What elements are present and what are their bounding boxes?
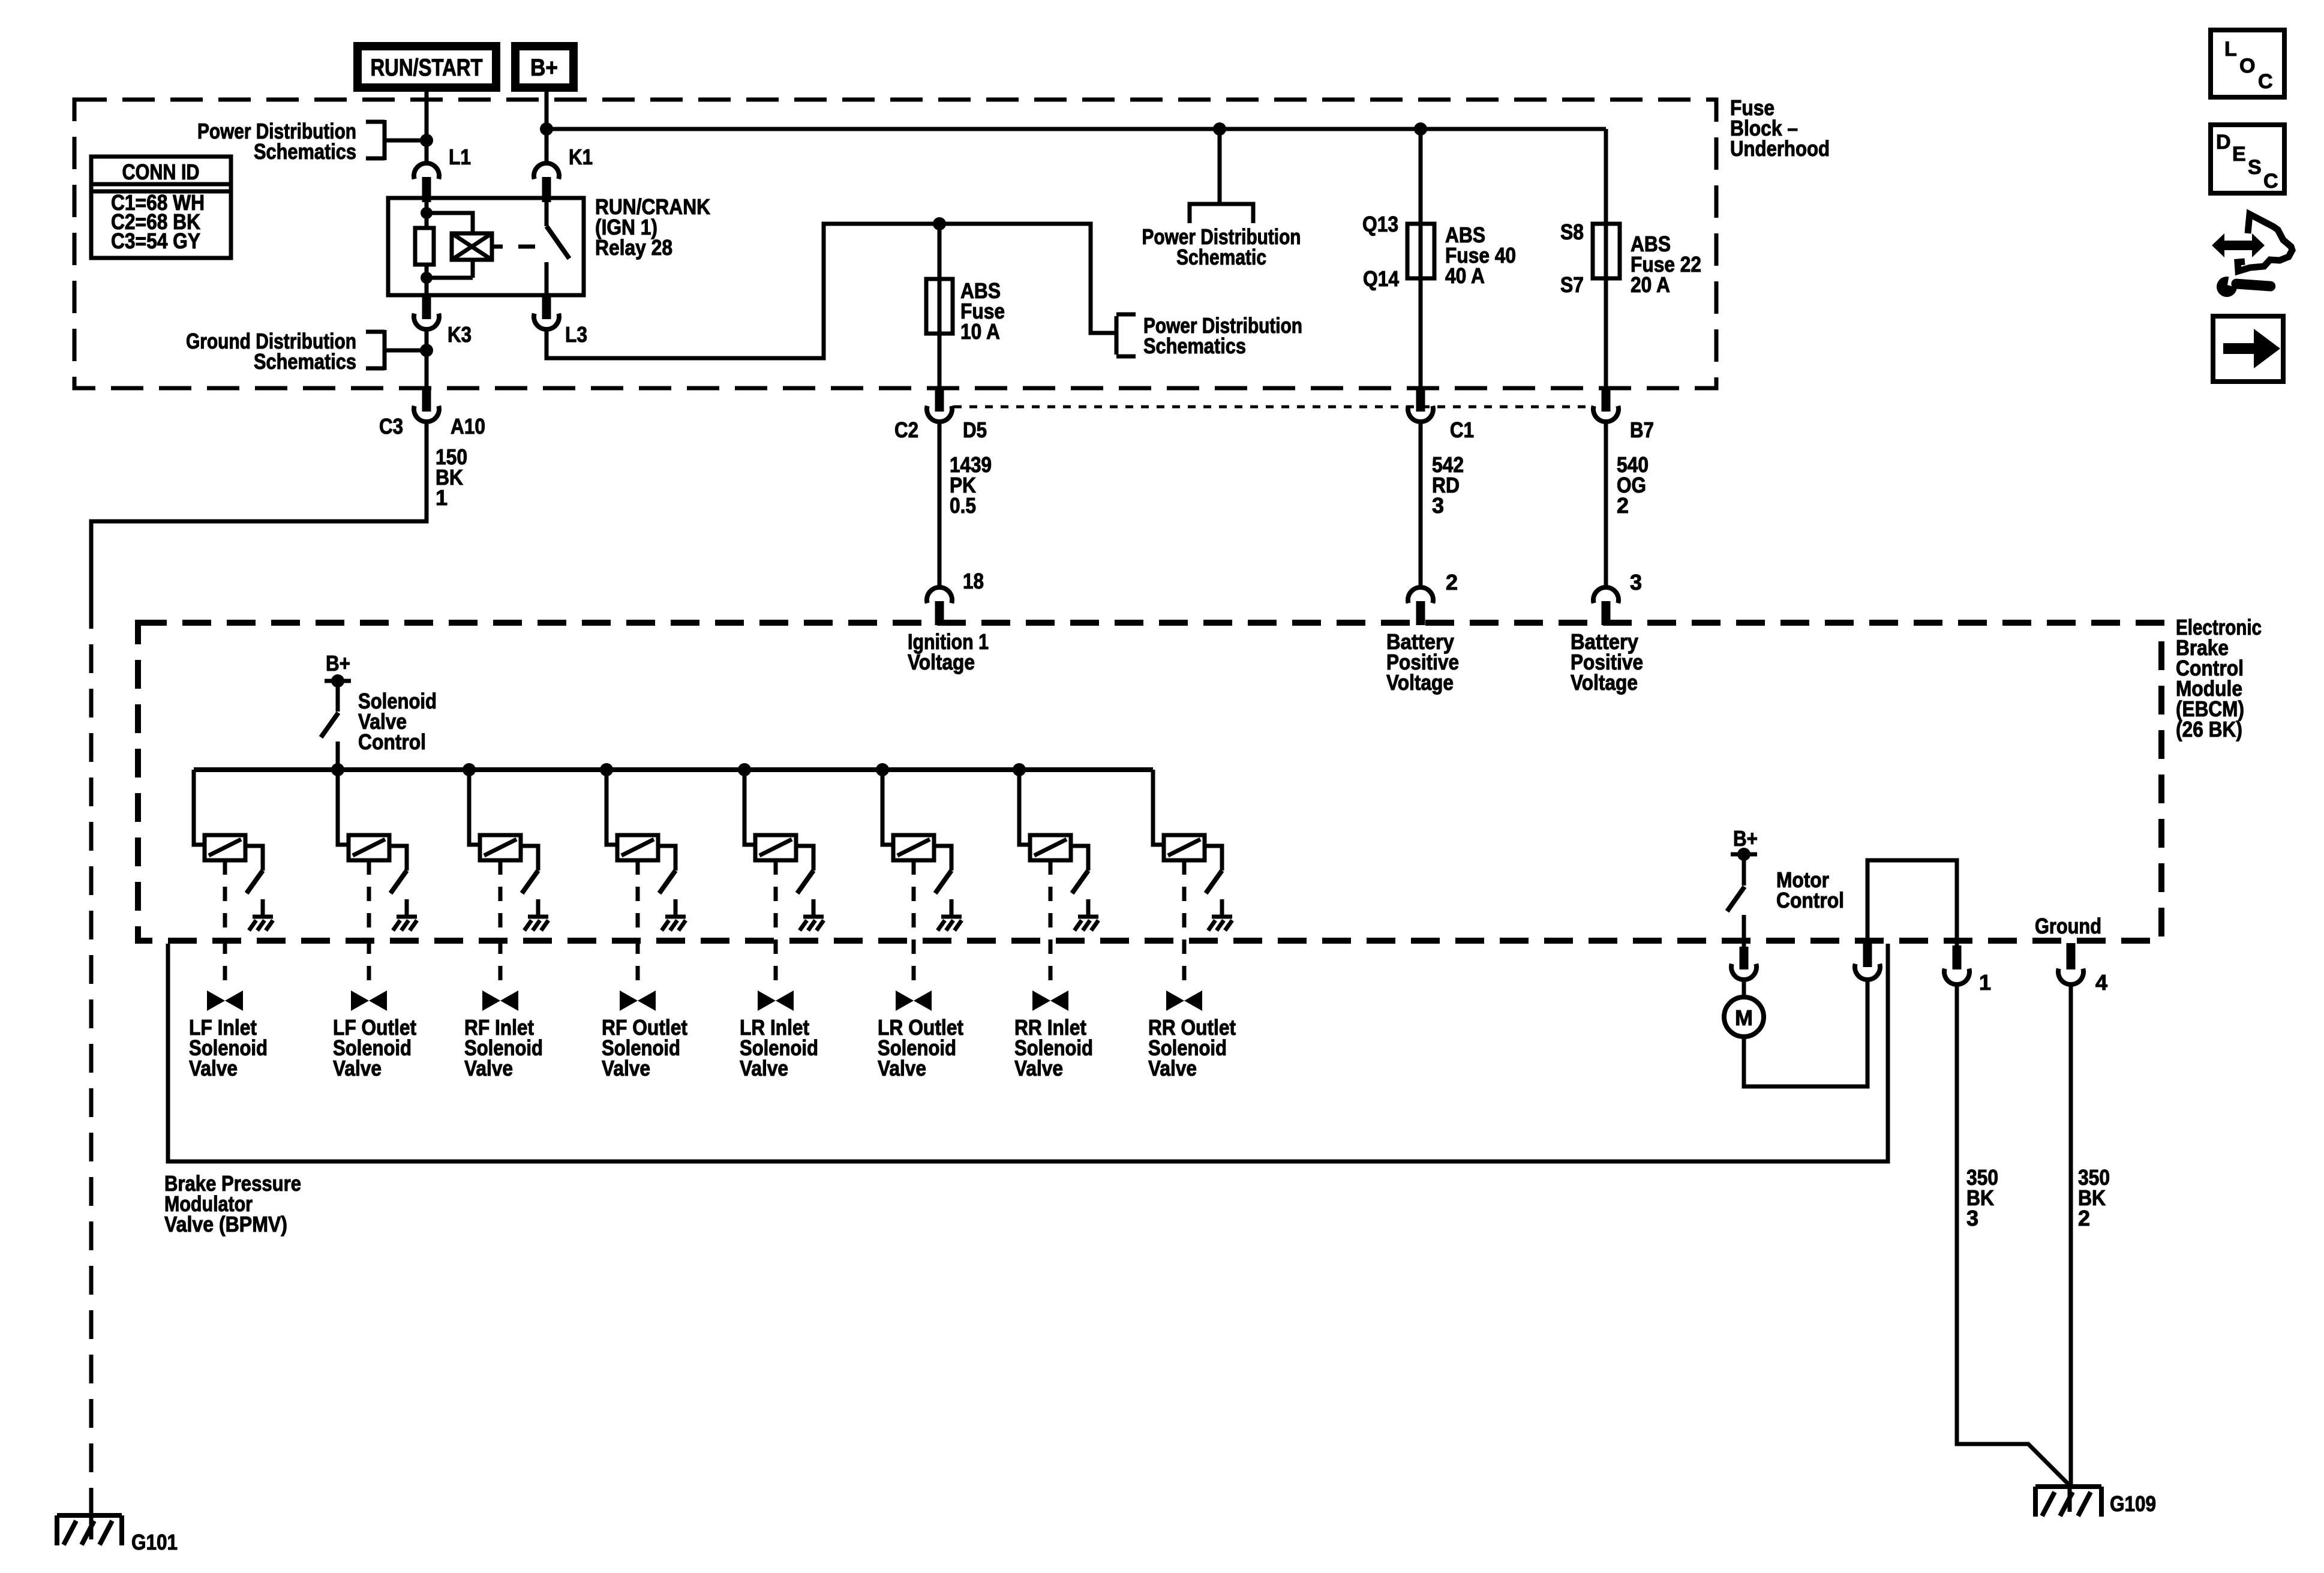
- wire RUN/START down to L1: [425, 92, 429, 163]
- connector L3: [542, 295, 551, 319]
- fuse ABS Fuse 10 A: [938, 224, 942, 387]
- svg-text:B+: B+: [530, 55, 558, 81]
- svg-text:3: 3: [1432, 493, 1444, 518]
- svg-text:L1: L1: [449, 145, 471, 169]
- svg-text:1: 1: [1979, 970, 1991, 995]
- LF Outlet solenoid driver: [338, 770, 417, 1011]
- svg-text:(26 BK): (26 BK): [2176, 717, 2242, 742]
- pin 4 connector: [2067, 943, 2076, 969]
- svg-text:Valve: Valve: [333, 1056, 382, 1080]
- svg-text:Valve: Valve: [1148, 1056, 1197, 1080]
- svg-text:3: 3: [1966, 1206, 1978, 1230]
- svg-text:S7: S7: [1560, 272, 1584, 297]
- node bus taps: [331, 763, 344, 776]
- node junction to ground distribution bracket: [420, 344, 433, 357]
- svg-text:L: L: [2224, 38, 2237, 61]
- icon service wrench with arrows: [2212, 214, 2292, 297]
- fuse ABS Fuse 40 (Q13/Q14): [1419, 129, 1423, 387]
- svg-text:C: C: [2258, 70, 2273, 93]
- wire 540 OG 2: [1604, 422, 1608, 588]
- wire K3 down to C3: [425, 329, 429, 387]
- svg-text:Schematic: Schematic: [1176, 245, 1266, 269]
- ground G101: [57, 1515, 122, 1545]
- BPMV outline: [168, 944, 1888, 1161]
- icon forward arrow box: [2213, 316, 2283, 382]
- svg-text:Relay 28: Relay 28: [595, 235, 672, 260]
- svg-text:S: S: [2248, 156, 2262, 179]
- svg-text:Valve: Valve: [1014, 1056, 1063, 1080]
- svg-text:Valve (BPMV): Valve (BPMV): [164, 1212, 287, 1236]
- svg-text:Q14: Q14: [1363, 266, 1399, 291]
- svg-text:G109: G109: [2110, 1491, 2156, 1516]
- wire L3 to ABS fuse 10A feed: [547, 224, 1115, 358]
- RUN/START feed box: [358, 46, 496, 88]
- wire resistor bottom to K3: [425, 265, 429, 295]
- svg-text:2: 2: [2078, 1206, 2090, 1230]
- EBCM dashed enclosure: [138, 623, 2161, 941]
- connector C3 / A10: [422, 389, 431, 412]
- wire bus from K1 junction to fuses: [547, 127, 1606, 131]
- svg-text:D5: D5: [963, 418, 987, 442]
- svg-text:K3: K3: [448, 322, 472, 347]
- svg-text:0.5: 0.5: [950, 493, 976, 518]
- svg-text:CONN ID: CONN ID: [122, 160, 200, 184]
- svg-text:40 A: 40 A: [1445, 263, 1485, 288]
- svg-text:Valve: Valve: [878, 1056, 926, 1080]
- svg-text:C2: C2: [894, 418, 918, 442]
- svg-text:Control: Control: [1776, 888, 1844, 912]
- wire bus drop to power distribution schematic: [1218, 129, 1222, 202]
- svg-text:Valve: Valve: [602, 1056, 650, 1080]
- svg-text:2: 2: [1446, 570, 1458, 595]
- wire 542 RD 3: [1419, 422, 1423, 588]
- connector C1: [1416, 389, 1425, 412]
- svg-text:B+: B+: [326, 651, 350, 676]
- motor return pin connector: [1863, 943, 1872, 967]
- svg-text:3: 3: [1630, 570, 1642, 595]
- svg-text:C: C: [2263, 170, 2278, 193]
- RF Inlet solenoid driver: [469, 770, 548, 1011]
- pin 3 connector at EBCM: [1593, 587, 1619, 603]
- svg-text:20 A: 20 A: [1631, 272, 1670, 297]
- svg-text:Schematics: Schematics: [1143, 334, 1246, 358]
- off-page bracket Power Distribution Schematics: [366, 120, 427, 160]
- svg-text:Valve: Valve: [464, 1056, 513, 1080]
- ground G109: [2035, 1487, 2101, 1517]
- connector B7: [1602, 389, 1611, 412]
- Fuse Block - Underhood dashed enclosure: [74, 100, 1716, 388]
- svg-text:C3=54 GY: C3=54 GY: [111, 229, 200, 253]
- svg-text:B+: B+: [1733, 826, 1758, 851]
- svg-text:Control: Control: [358, 730, 426, 754]
- svg-text:M: M: [1735, 1005, 1753, 1030]
- svg-text:Ground: Ground: [2035, 914, 2101, 938]
- svg-text:Voltage: Voltage: [1386, 670, 1454, 695]
- svg-text:RUN/START: RUN/START: [371, 55, 483, 81]
- svg-text:Voltage: Voltage: [1571, 670, 1638, 695]
- LR Inlet solenoid driver: [744, 770, 824, 1011]
- svg-text:C1: C1: [1450, 418, 1474, 442]
- svg-text:G101: G101: [131, 1530, 178, 1554]
- relay switch: [545, 202, 549, 226]
- CONN ID table: [91, 157, 231, 258]
- relay RUN/CRANK (IGN 1) Relay 28 box: [388, 198, 584, 295]
- wire 150 BK 1 dashed run to G101: [89, 600, 94, 1507]
- fuse ABS Fuse 22 (S8/S7): [1604, 129, 1608, 387]
- relay coil box with X: [452, 233, 492, 260]
- svg-text:Schematics: Schematics: [254, 139, 356, 164]
- svg-text:O: O: [2239, 55, 2255, 77]
- off-page bracket Power Distribution Schematics (right): [1116, 314, 1136, 356]
- motor control pin connector: [1740, 947, 1749, 969]
- wire B+ down to K1: [545, 92, 549, 163]
- node junction fuse 10A: [933, 217, 946, 230]
- wire relay coil top node: [425, 202, 429, 228]
- svg-text:B7: B7: [1630, 418, 1654, 442]
- svg-text:L3: L3: [565, 322, 587, 347]
- wire coil parallel loop bottom: [427, 258, 473, 278]
- connector K3: [422, 295, 431, 319]
- svg-text:K1: K1: [569, 145, 593, 169]
- svg-text:Underhood: Underhood: [1730, 136, 1830, 161]
- RR Inlet solenoid driver: [1019, 770, 1098, 1011]
- pin 18 connector at EBCM: [927, 587, 952, 603]
- wire motor return: [1744, 980, 1867, 1086]
- relay actuation dashed link: [492, 245, 535, 249]
- svg-text:S8: S8: [1560, 220, 1584, 244]
- svg-text:18: 18: [963, 569, 984, 593]
- svg-text:D: D: [2216, 131, 2231, 154]
- svg-text:Q13: Q13: [1362, 212, 1398, 236]
- RF Outlet solenoid driver: [606, 770, 686, 1011]
- svg-text:E: E: [2232, 143, 2246, 166]
- icon LOC box: [2211, 30, 2284, 97]
- svg-text:Voltage: Voltage: [908, 650, 975, 674]
- wire 150 BK 1: [91, 422, 427, 600]
- svg-text:Valve: Valve: [189, 1056, 238, 1080]
- off-page symbol Power Distribution Schematic: [1190, 204, 1253, 223]
- connector C2 / D5: [935, 389, 944, 412]
- svg-text:2: 2: [1617, 493, 1629, 518]
- pin 1 connector: [1953, 945, 1962, 969]
- node junction to power distribution bracket: [420, 134, 433, 147]
- LF Inlet solenoid driver: [194, 770, 273, 1011]
- svg-text:4: 4: [2095, 970, 2107, 995]
- off-page bracket Ground Distribution Schematics: [366, 330, 427, 370]
- wire 1439 PK 0.5: [938, 422, 942, 588]
- svg-text:1: 1: [436, 485, 448, 510]
- wire coil parallel loop top: [427, 213, 473, 235]
- node junction B+ bus: [540, 122, 553, 136]
- connector K1: [534, 163, 559, 179]
- svg-text:Valve: Valve: [740, 1056, 788, 1080]
- B+ feed box: [515, 46, 574, 88]
- svg-text:10 A: 10 A: [960, 319, 1000, 344]
- wire 350 BK 2: [2069, 984, 2073, 1484]
- motor M: [1742, 980, 1746, 996]
- resistor relay coil suppression: [415, 228, 434, 265]
- icon DESC box: [2211, 125, 2284, 193]
- svg-text:A10: A10: [451, 414, 485, 439]
- svg-text:C3: C3: [379, 414, 403, 439]
- switch motor control: [1742, 857, 1746, 885]
- wire solenoid supply bus: [194, 767, 1153, 772]
- wire EBCM internal motor return to pin 1: [1867, 860, 1957, 945]
- svg-text:Schematics: Schematics: [254, 349, 356, 374]
- dotted connector row line C2-C1-B7: [954, 406, 1592, 409]
- wire 350 BK 3: [1957, 984, 2068, 1484]
- RR Outlet solenoid driver: [1153, 770, 1232, 1011]
- switch solenoid valve control: [336, 683, 340, 712]
- connector L1: [414, 163, 439, 179]
- pin 2 connector at EBCM: [1408, 587, 1433, 603]
- LR Outlet solenoid driver: [882, 770, 962, 1011]
